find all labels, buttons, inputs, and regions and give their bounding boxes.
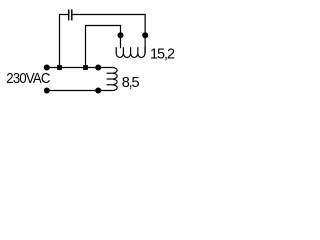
svg-text:8,5: 8,5 <box>122 75 140 91</box>
svg-text:15,2: 15,2 <box>150 47 175 63</box>
svg-text:230VAC: 230VAC <box>6 70 50 87</box>
